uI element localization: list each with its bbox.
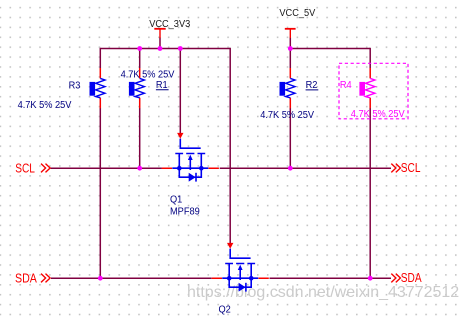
- svg-text:4.7K 5% 25V: 4.7K 5% 25V: [351, 108, 405, 120]
- svg-text:SCL: SCL: [401, 161, 421, 175]
- svg-text:SDA: SDA: [401, 271, 422, 285]
- svg-text:MPF89: MPF89: [170, 206, 200, 218]
- svg-text:4.7K 5% 25V: 4.7K 5% 25V: [18, 99, 72, 111]
- svg-text:SDA: SDA: [15, 270, 37, 285]
- svg-text:4.7K 5% 25V: 4.7K 5% 25V: [260, 109, 314, 121]
- svg-text:Q2: Q2: [219, 304, 231, 316]
- svg-text:https://blog.csdn.net/weixin_4: https://blog.csdn.net/weixin_43772512: [187, 284, 459, 301]
- svg-text:VCC_5V: VCC_5V: [279, 8, 315, 20]
- svg-text:SCL: SCL: [15, 161, 35, 175]
- svg-text:R4: R4: [340, 80, 352, 92]
- svg-text:R3: R3: [69, 80, 81, 92]
- svg-text:Q1: Q1: [170, 194, 183, 206]
- svg-text:VCC_3V3: VCC_3V3: [149, 18, 191, 30]
